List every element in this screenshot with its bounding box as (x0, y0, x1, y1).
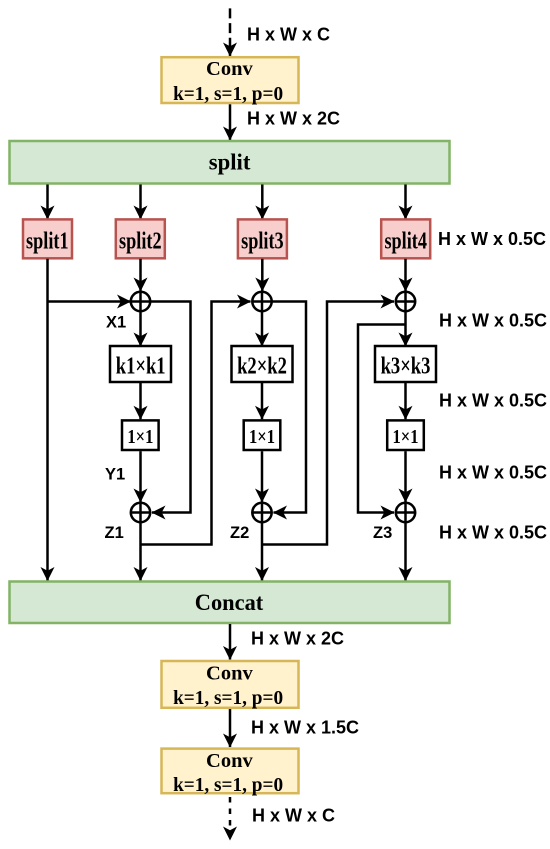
bypass wire X1 to Z1 (151, 302, 191, 513)
k3xk3 box (375, 346, 436, 382)
svg-text:k2×k2: k2×k2 (237, 353, 287, 379)
bypass wire X2 to Z2 (272, 302, 306, 513)
wire split4 to X3 adder (404, 259, 407, 291)
svg-text:k=1, s=1, p=0: k=1, s=1, p=0 (173, 83, 283, 105)
split4 box (381, 219, 430, 258)
wire k2 to 1x1 (261, 383, 264, 420)
wire Concat to conv block 2 (229, 624, 232, 660)
wire split1 branch to X1 adder (48, 300, 131, 303)
conv block 3 (162, 749, 299, 796)
wire split to split1 (46, 185, 49, 220)
cascade wire Z2 to X3 adder (262, 302, 394, 545)
svg-text:H x W x 2C: H x W x 2C (247, 109, 340, 129)
svg-text:split: split (209, 149, 251, 174)
wire 1x1 to Z3 adder (404, 451, 407, 502)
split bar (10, 141, 450, 184)
1x1 box (col2) (244, 420, 281, 450)
split1 box (23, 219, 72, 258)
svg-text:Y1: Y1 (105, 466, 125, 484)
svg-text:H x W x 0.5C: H x W x 0.5C (439, 391, 547, 411)
wire Z3 down to Concat (404, 522, 407, 581)
wire X2 to k2 box (261, 312, 264, 347)
1x1 box (col1) (122, 420, 159, 450)
cascade wire Z1 to X2 adder (141, 302, 251, 545)
adder X3 (396, 292, 415, 311)
k1xk1 box (110, 346, 171, 382)
1x1 box (col3) (387, 420, 424, 450)
svg-text:split3: split3 (241, 229, 284, 255)
svg-text:X1: X1 (106, 314, 126, 332)
wire k1 to 1x1 (139, 383, 142, 420)
svg-text:H x W x 0.5C: H x W x 0.5C (439, 311, 547, 331)
input wire (dashed) (229, 8, 232, 56)
wire split to split3 (261, 185, 264, 220)
svg-text:split4: split4 (384, 229, 427, 255)
svg-text:Z2: Z2 (230, 524, 249, 542)
svg-text:Z3: Z3 (373, 524, 392, 542)
wire X3 to k3 box (404, 312, 407, 347)
svg-text:split2: split2 (119, 229, 162, 255)
svg-text:k=1, s=1, p=0: k=1, s=1, p=0 (173, 774, 283, 796)
wire split to split2 (139, 185, 142, 220)
svg-text:Concat: Concat (195, 590, 264, 615)
wire conv2 to conv3 (229, 709, 232, 747)
svg-text:1×1: 1×1 (393, 426, 419, 448)
k2xk2 box (232, 346, 293, 382)
svg-text:H x W x C: H x W x C (247, 25, 330, 45)
svg-text:Conv: Conv (206, 750, 253, 772)
svg-text:k=1, s=1, p=0: k=1, s=1, p=0 (173, 687, 283, 709)
wire split to split4 (404, 185, 407, 220)
adder Z1 (131, 503, 150, 522)
svg-text:H x W x 0.5C: H x W x 0.5C (439, 463, 547, 483)
svg-text:k3×k3: k3×k3 (381, 353, 431, 379)
adder X2 (252, 292, 271, 311)
wire conv to split (229, 104, 232, 140)
bypass wire X3 to Z3 (358, 325, 406, 513)
conv block 2 (162, 661, 299, 709)
wire 1x1 to Z1 adder (139, 451, 142, 502)
svg-text:Z1: Z1 (105, 524, 124, 542)
svg-text:H x W x 1.5C: H x W x 1.5C (251, 718, 359, 738)
wire split3 to X2 adder (261, 259, 264, 291)
conv block top (162, 57, 299, 105)
svg-text:k1×k1: k1×k1 (116, 353, 166, 379)
svg-text:split1: split1 (26, 229, 69, 255)
svg-text:H x W x 2C: H x W x 2C (251, 629, 344, 649)
wire Z1 down to Concat (139, 522, 142, 581)
wire Z2 down to Concat (261, 522, 264, 581)
svg-text:H x W x 0.5C: H x W x 0.5C (438, 229, 546, 249)
svg-text:1×1: 1×1 (249, 426, 275, 448)
svg-text:H x W x 0.5C: H x W x 0.5C (439, 523, 547, 543)
adder Z3 (396, 503, 415, 522)
svg-text:1×1: 1×1 (127, 426, 153, 448)
split3 box (238, 219, 287, 258)
adder Z2 (252, 503, 271, 522)
wire 1x1 to Z2 adder (261, 451, 264, 502)
wire split2 to X1 adder (139, 259, 142, 291)
svg-text:H x W x C: H x W x C (252, 806, 335, 826)
svg-text:Conv: Conv (206, 662, 253, 684)
split2 box (116, 219, 165, 258)
wire X1 to k1 box (139, 312, 142, 347)
wire k3 to 1x1 (404, 383, 407, 420)
svg-text:Conv: Conv (206, 58, 253, 80)
output wire (dashed) (229, 795, 232, 841)
Concat bar (10, 582, 450, 624)
adder X1 (131, 292, 150, 311)
wire split1 down to Concat (46, 259, 49, 581)
